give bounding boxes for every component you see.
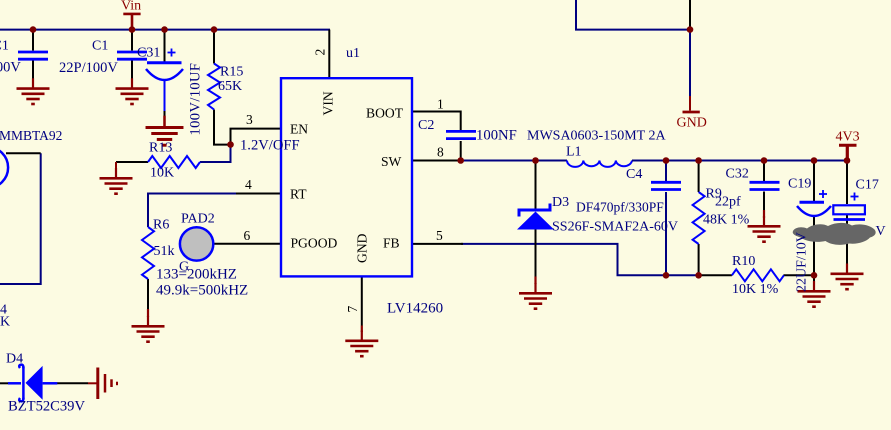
svg-text:L1: L1: [566, 144, 582, 159]
svg-text:R6: R6: [153, 218, 169, 233]
svg-text:D3: D3: [552, 195, 569, 210]
svg-text:C19: C19: [788, 177, 811, 192]
svg-text:8: 8: [437, 144, 444, 159]
svg-text:4: 4: [245, 177, 252, 192]
svg-text:10K 1%: 10K 1%: [732, 282, 779, 297]
svg-text:G: G: [179, 260, 189, 275]
svg-text:C1: C1: [0, 39, 9, 54]
svg-text:u1: u1: [346, 46, 360, 61]
svg-text:133=200kHZ: 133=200kHZ: [156, 267, 237, 283]
svg-text:PGOOD: PGOOD: [291, 235, 338, 250]
svg-text:C2: C2: [418, 118, 434, 133]
svg-text:48K 1%: 48K 1%: [703, 213, 750, 228]
svg-text:5: 5: [436, 228, 443, 243]
svg-text:EN: EN: [290, 122, 308, 137]
svg-text:DF470pf/330PF: DF470pf/330PF: [576, 200, 664, 215]
svg-text:SS26F-SMAF2A-60V: SS26F-SMAF2A-60V: [552, 220, 678, 235]
svg-text:22pf: 22pf: [715, 195, 741, 210]
svg-text:7: 7: [345, 306, 360, 313]
svg-text:GND: GND: [355, 233, 370, 263]
svg-text:MMBTA92: MMBTA92: [0, 128, 62, 143]
svg-text:SW: SW: [381, 154, 402, 169]
svg-text:C32: C32: [726, 167, 749, 182]
svg-text:C4: C4: [626, 167, 642, 182]
svg-text:R10: R10: [732, 254, 755, 269]
svg-text:R13: R13: [149, 141, 172, 156]
svg-text:MWSA0603-150MT 2A: MWSA0603-150MT 2A: [527, 129, 666, 144]
svg-text:RT: RT: [290, 186, 307, 201]
svg-text:6: 6: [244, 228, 251, 243]
svg-text:1.2V/OFF: 1.2V/OFF: [240, 138, 300, 154]
svg-text:K: K: [0, 315, 10, 330]
svg-text:VIN: VIN: [321, 91, 336, 115]
svg-text:C17: C17: [856, 178, 879, 193]
svg-text:22P/100V: 22P/100V: [59, 60, 118, 76]
svg-text:GND: GND: [677, 115, 707, 130]
svg-text:V: V: [876, 224, 886, 239]
svg-text:22P/100V: 22P/100V: [0, 60, 21, 76]
svg-text:2: 2: [313, 49, 328, 56]
svg-text:4V3: 4V3: [836, 129, 860, 144]
svg-text:1: 1: [437, 97, 444, 112]
svg-text:C1: C1: [92, 39, 108, 54]
svg-text:10K: 10K: [150, 166, 174, 181]
svg-text:PAD2: PAD2: [181, 211, 215, 226]
svg-text:BZT52C39V: BZT52C39V: [8, 399, 85, 415]
svg-text:D4: D4: [6, 352, 23, 367]
svg-text:22UF/10V: 22UF/10V: [795, 232, 810, 292]
svg-text:Vin: Vin: [121, 0, 141, 14]
svg-text:FB: FB: [383, 235, 400, 250]
svg-text:3: 3: [246, 112, 253, 127]
svg-text:BOOT: BOOT: [366, 105, 404, 120]
svg-text:LV14260: LV14260: [387, 301, 443, 317]
svg-text:R15: R15: [220, 65, 243, 80]
svg-text:49.9k=500kHZ: 49.9k=500kHZ: [156, 283, 248, 299]
svg-text:C31: C31: [137, 46, 160, 61]
svg-text:100NF: 100NF: [476, 128, 517, 144]
svg-text:65K: 65K: [218, 79, 242, 94]
svg-text:51k: 51k: [154, 244, 175, 259]
svg-text:100V/10UF: 100V/10UF: [188, 63, 204, 136]
